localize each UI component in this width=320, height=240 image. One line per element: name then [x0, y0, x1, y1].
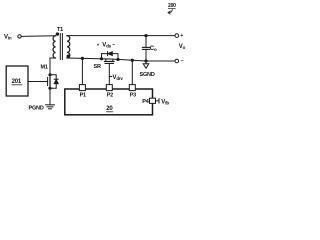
node Vin label [4, 35, 12, 41]
svg-text:T1: T1 [57, 27, 63, 33]
node junction P3 [131, 59, 134, 62]
node junction SR right [116, 58, 119, 61]
diode M1 body diode [50, 75, 58, 88]
svg-text:M1: M1 [41, 65, 48, 71]
block 20 IC box [65, 89, 153, 115]
svg-text:P3: P3 [130, 92, 136, 98]
ground SGND [143, 61, 149, 68]
label Vo [179, 44, 186, 50]
label Vdrv tick [109, 76, 112, 78]
wire P4 to Vfb tick [156, 100, 160, 102]
transistor SR [105, 59, 115, 64]
wire secondary top rail [67, 35, 175, 37]
svg-text:Vdrv: Vdrv [113, 75, 124, 81]
label Vds [102, 42, 111, 48]
node M1 drain [48, 73, 51, 76]
transistor M1 label [41, 65, 48, 71]
wire secondary bottom rail [67, 58, 175, 61]
capacitor Co [142, 36, 149, 61]
ground SGND label [140, 72, 155, 78]
label Vdrv [113, 75, 124, 81]
svg-text:+: + [180, 33, 183, 39]
svg-text:Co: Co [150, 46, 157, 52]
node junction Co bottom [144, 59, 147, 62]
capacitor Co label [150, 46, 157, 52]
ground PGND label [29, 105, 44, 111]
block 201 label [12, 79, 23, 85]
svg-text:–: – [181, 58, 184, 64]
reference numeral 200 [168, 3, 176, 9]
pin P4 label [142, 99, 149, 105]
transistor SR label [94, 64, 101, 70]
transistor M1 [48, 75, 50, 88]
label Vds minus [112, 42, 115, 48]
reference numeral 200 arrow [168, 10, 172, 15]
label Vfb tick [158, 99, 160, 103]
transformer secondary phase dot [67, 55, 70, 58]
transformer primary phase dot [56, 32, 59, 35]
svg-text:Vds: Vds [102, 42, 111, 48]
svg-text:201: 201 [12, 79, 22, 85]
wire P1 to rail [81, 58, 83, 84]
wire primary bottom to M1 drain [50, 58, 56, 75]
pin P2 [106, 85, 112, 91]
transformer T1 primary winding [53, 36, 55, 58]
wire P3 to rail [131, 60, 133, 84]
block 201 controller box [6, 66, 28, 96]
terminal Vin [18, 35, 21, 38]
svg-text:SGND: SGND [140, 72, 155, 78]
label Vfb [161, 99, 169, 105]
svg-text:Vfb: Vfb [161, 99, 169, 105]
svg-text:SR: SR [94, 64, 101, 70]
pin P1 [79, 85, 85, 91]
pin P1 label [80, 92, 86, 98]
node junction P1 [81, 57, 84, 60]
block 20 label [106, 106, 113, 112]
terminal Vo plus [175, 34, 179, 38]
node M1 source [48, 87, 51, 90]
svg-text:P1: P1 [80, 92, 86, 98]
diode SR body diode [108, 52, 113, 56]
node junction SR left [100, 57, 103, 60]
wire Vin to primary top [21, 35, 55, 38]
svg-text:Vin: Vin [4, 35, 12, 41]
wire SR gate to P2 [108, 64, 110, 85]
node junction Co top [144, 34, 147, 37]
svg-text:P4: P4 [142, 99, 149, 105]
label minus [181, 58, 184, 64]
label Vds plus [97, 42, 100, 47]
transformer core [60, 34, 62, 60]
svg-text:–: – [112, 42, 115, 48]
pin P4 [150, 98, 156, 103]
pin P3 [129, 85, 135, 91]
transformer T1 label [57, 27, 63, 33]
svg-text:20: 20 [106, 106, 113, 112]
terminal Vo minus [175, 59, 179, 63]
wire M1 source to PGND [49, 88, 51, 105]
svg-text:PGND: PGND [29, 105, 44, 111]
svg-text:P2: P2 [107, 92, 113, 98]
transformer T1 secondary winding [67, 36, 70, 58]
wire M1 gate lead [28, 81, 48, 83]
label plus [180, 33, 183, 39]
ground PGND [46, 105, 55, 109]
pin P3 label [130, 92, 136, 98]
wire SR diode branch [102, 54, 119, 60]
pin P2 label [107, 92, 113, 98]
svg-text:Vo: Vo [179, 44, 186, 50]
svg-text:+: + [97, 42, 100, 47]
